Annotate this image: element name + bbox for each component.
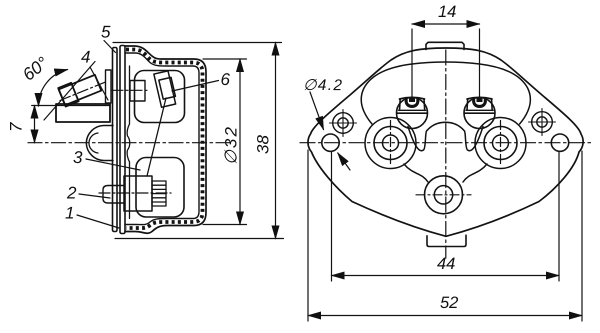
leader 6 [172,81,219,92]
leader 3 [86,159,140,170]
horizontal centerline [300,142,592,144]
svg-text:6: 6 [220,70,230,89]
left mounting hole 4.2 [322,134,339,151]
upper terminal centerline [112,89,150,91]
bottom tab [427,235,466,246]
tilted terminal (60 deg) [58,73,102,106]
vertical centerline [445,50,447,258]
dim 14 line [412,23,480,25]
svg-text:1: 1 [65,204,75,223]
right screw terminal [464,98,495,129]
inner moulding wavy wall [127,66,130,219]
svg-text:3: 3 [73,148,83,167]
long internal diagonal [147,98,166,176]
can inner wall [125,53,199,225]
dim 7 line [34,106,36,143]
terminal mount bracket [106,70,112,103]
can wall section hatch (dashes) [126,50,203,229]
dim 38 line [275,43,277,239]
dim 52 extension lines [307,150,309,321]
svg-text:52: 52 [440,294,458,312]
svg-text:∅4.2: ∅4.2 [303,77,342,94]
lower terminal centerline [99,192,171,194]
dim 32 line [239,59,241,225]
right mounting hole 4.2 [551,134,568,151]
part leaders [77,41,219,229]
leader 2 [79,194,110,198]
big holes crosshairs [390,121,392,167]
main axis centerline [28,142,233,144]
tilted terminal axis centerline [60,81,108,101]
svg-text:7: 7 [7,122,26,132]
inner contour: upper shelf [361,62,530,124]
bottom hole [425,176,463,214]
svg-text:2: 2 [66,183,77,202]
right rivet [529,109,556,136]
right big hole [484,127,517,160]
middle-left moulded bump (part 3) [86,126,113,161]
dia 4.2 leader [310,92,324,130]
horizontal terminal lug [56,104,110,122]
left big hole ring [365,118,416,169]
top tab [426,42,464,49]
svg-text:14: 14 [438,3,456,21]
dim 52 line [308,315,582,317]
leader 1 [77,215,119,228]
svg-text:60°: 60° [19,53,52,85]
inner contour: central bump with S-curves [408,122,483,150]
dim 44 extension lines [331,153,333,282]
left screw terminal [397,98,428,129]
60 deg ray (terminal axis) [44,62,95,121]
left rivet [330,110,357,137]
left big hole [374,127,407,160]
svg-text:4: 4 [81,48,91,67]
flange front plate [113,48,118,232]
flange outline [308,48,583,236]
dim 44 line [332,275,560,277]
lower cavity [136,158,184,218]
extension line through terminal pivot [32,105,110,107]
dim 32 extension lines [203,58,247,60]
leader 4 [90,67,108,100]
can outer wall [125,46,206,233]
leader 5 [104,41,116,53]
flange back plate [120,46,125,234]
svg-text:38: 38 [254,135,273,154]
lower-left bump (part 2) [103,186,124,204]
svg-text:5: 5 [101,23,111,42]
dim 38 extension lines [113,42,282,44]
hole pointer arrow [338,153,350,170]
tilted inner contact (pair) [154,71,177,108]
60 deg arc [39,70,68,107]
lower terminal block [124,176,152,211]
svg-text:44: 44 [437,255,455,273]
inner contour: neck curves to bottom boss [404,164,428,182]
svg-text:∅32: ∅32 [222,126,241,165]
upper-left inner contact rect [130,81,145,102]
lower striped block (heater) [152,181,166,206]
dim 14 extension lines [411,29,413,100]
upper cavity [135,71,185,123]
right big hole ring [475,118,526,169]
